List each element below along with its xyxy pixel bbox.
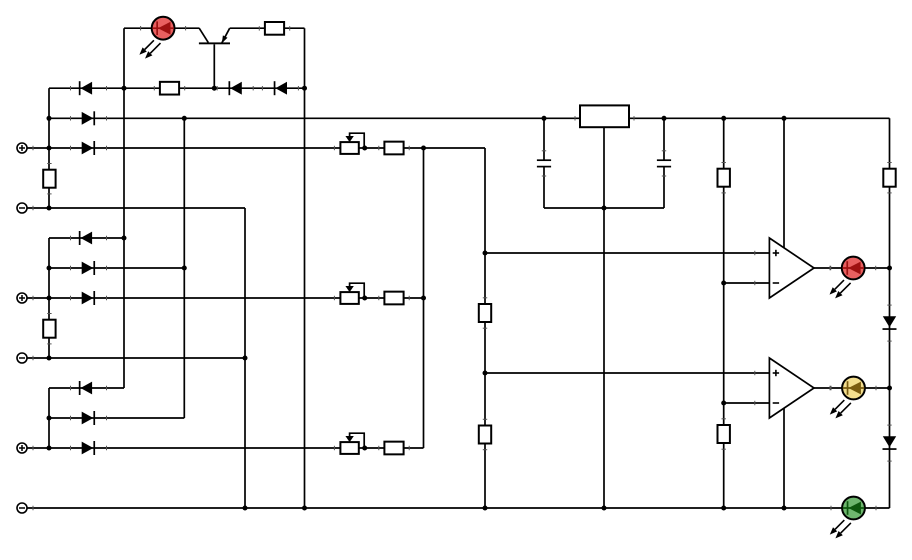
wire regulator output column x=604 bbox=[603, 127, 605, 508]
wire row y=88 (base/diode row) bbox=[49, 87, 305, 89]
diode D2 (left, row88 block1) bbox=[79, 81, 92, 95]
resistor R5 (row 148) bbox=[384, 142, 403, 155]
resistor R11 (ref bottom, x=723.7) bbox=[718, 425, 730, 443]
resistor R6 (row 298) bbox=[384, 292, 403, 305]
terminal +BAT3 bbox=[17, 443, 27, 453]
trimmer P1 (row 148) bbox=[340, 133, 364, 154]
wire row y=148 (+bat1 to divider) bbox=[27, 147, 485, 149]
wire capacitor C1 stubs bbox=[543, 118, 545, 208]
op-amp U1 bbox=[769, 238, 814, 298]
wire ground rail y=508 bbox=[27, 507, 890, 509]
resistor R7 (row 448) bbox=[384, 442, 403, 455]
transistor Q1 (PNP) bbox=[199, 28, 230, 88]
diode D16 (right rail upper) bbox=[883, 316, 897, 330]
wire row y=238 bbox=[49, 237, 124, 239]
resistor R4 (battery2 shunt) bbox=[43, 320, 55, 338]
LED D13 (red, U1 output) bbox=[830, 257, 865, 299]
LED D14 (yellow, U2 output) bbox=[830, 377, 865, 419]
trimmer P2 (row 298) bbox=[340, 283, 364, 304]
LED D15 (green, ground rail) bbox=[830, 497, 865, 539]
diode D5 (row 118) bbox=[82, 111, 95, 125]
wire row y=298 (+bat2 to divider) bbox=[27, 297, 424, 299]
wire op-amp U2 + input bbox=[485, 372, 769, 374]
resistor R2 (row y=88) bbox=[160, 82, 179, 95]
wire row y=388 bbox=[49, 387, 124, 389]
wire op-amp U2 - input bbox=[724, 402, 770, 404]
wire op-amp U1 + input bbox=[485, 252, 769, 254]
terminal -BAT1 bbox=[17, 203, 27, 213]
wire top LED row bbox=[124, 27, 305, 29]
LED D1 (red, top) bbox=[139, 17, 174, 59]
wire battery1 left column x=49 bbox=[48, 88, 50, 208]
wire column x=184 bbox=[183, 118, 185, 418]
terminal +BAT2 bbox=[17, 293, 27, 303]
capacitor C2 bbox=[657, 160, 671, 166]
diode D10 (left, row 388) bbox=[79, 381, 92, 395]
wire battery3 left column x=49 bbox=[48, 388, 50, 448]
capacitor C1 bbox=[537, 160, 551, 166]
resistor R10 (ref top, x=723.7) bbox=[718, 169, 730, 187]
wire op-amp U1 - input bbox=[724, 282, 770, 284]
wire op-amp U2 V- stub bbox=[783, 398, 785, 508]
wire minus2 row y=358 bbox=[27, 357, 245, 359]
wire battery2 left column x=49 bbox=[48, 238, 50, 358]
wire right loop vertical x=304.5 bbox=[304, 28, 306, 508]
resistor R8 (divider top, x=485) bbox=[479, 304, 491, 322]
diode D17 (right rail lower) bbox=[883, 436, 897, 450]
wire op-amp U1 V+ stub bbox=[783, 118, 785, 250]
trimmer P3 (row 448) bbox=[340, 433, 364, 454]
wire column x=245 bbox=[244, 208, 246, 508]
regulator U3 (box on rail) bbox=[580, 105, 629, 127]
wire capacitor C2 stubs bbox=[663, 118, 665, 208]
resistor R9 (divider bottom, x=485) bbox=[479, 426, 491, 444]
terminal -BAT2 bbox=[17, 353, 27, 363]
terminal -BAT3 bbox=[17, 503, 27, 513]
wire capacitors bottom y=208 bbox=[544, 207, 664, 209]
wire reference column x=723.7 bbox=[723, 118, 725, 508]
diode D9 (row 298) bbox=[82, 291, 95, 305]
wire minus1 row y=208 bbox=[27, 207, 245, 209]
wire right rail x=889.5 bbox=[889, 118, 891, 508]
wire row y=268 bbox=[49, 267, 184, 269]
wire op-amp U2 output bbox=[814, 387, 890, 389]
diode D3 (left of x=245, row88) bbox=[229, 81, 242, 95]
wire V+ rail y=118 bbox=[49, 117, 890, 119]
diode D7 (left, row 238) bbox=[79, 231, 92, 245]
diode D4 (left, row88 right) bbox=[274, 81, 287, 95]
diode D8 (row 268) bbox=[82, 261, 95, 275]
terminal +BAT1 bbox=[17, 143, 27, 153]
resistor R3 (battery1 shunt) bbox=[43, 170, 55, 188]
wire column x=423.5 bbox=[423, 148, 425, 448]
wire left loop vertical x=124 bbox=[123, 28, 125, 388]
wire row y=448 (+bat3 to divider) bbox=[27, 447, 424, 449]
diode D11 (row 418) bbox=[82, 411, 95, 425]
resistor R1 (top right) bbox=[265, 22, 284, 35]
wire op-amp U1 output bbox=[814, 267, 890, 269]
wire divider column x=485 bbox=[484, 148, 486, 508]
wire row y=418 bbox=[49, 417, 184, 419]
resistor R12 (right rail) bbox=[883, 169, 895, 187]
op-amp U2 bbox=[769, 358, 814, 418]
diode D6 (row 148) bbox=[82, 141, 95, 155]
diode D12 (row 448) bbox=[82, 441, 95, 455]
